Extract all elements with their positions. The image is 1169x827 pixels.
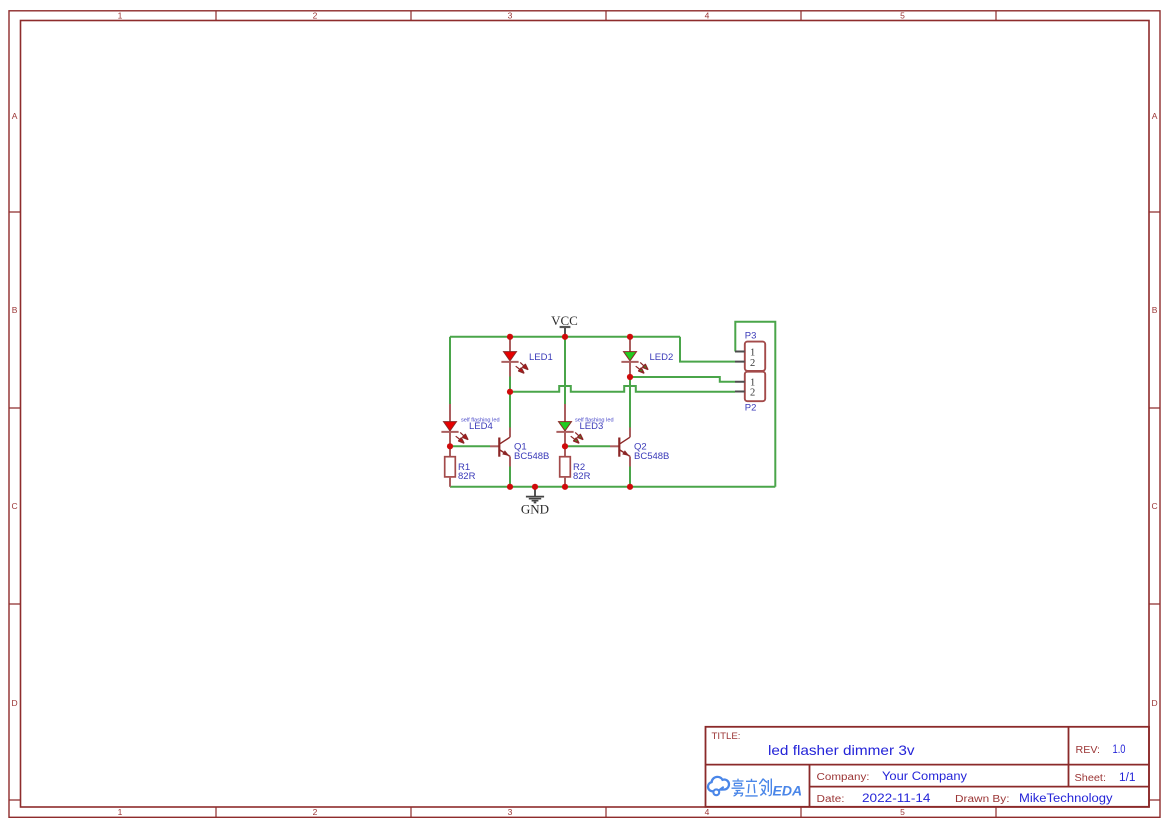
- transistor Q1: [490, 428, 549, 467]
- ground GND: [521, 487, 549, 517]
- svg-text:EDA: EDA: [773, 783, 803, 799]
- resistor R2: [560, 457, 591, 487]
- wire Q2 emitter to rail: [629, 467, 631, 487]
- svg-text:B: B: [1152, 305, 1158, 315]
- svg-text:VCC: VCC: [551, 313, 578, 328]
- wire top rail VCC: [450, 336, 680, 338]
- svg-text:LED4: LED4: [469, 421, 493, 432]
- wire node LED3 to Q2 base: [565, 445, 610, 447]
- LED LED2: [621, 337, 673, 377]
- svg-text:led flasher dimmer 3v: led flasher dimmer 3v: [768, 742, 915, 758]
- junction node R2 rail: [562, 484, 568, 490]
- svg-text:2: 2: [313, 11, 318, 21]
- wire left rail down to LED4: [449, 337, 451, 404]
- svg-text:82R: 82R: [573, 471, 591, 482]
- svg-text:C: C: [12, 501, 18, 511]
- pin LED3 anode: [564, 404, 566, 422]
- svg-text:B: B: [12, 305, 18, 315]
- svg-text:MikeTechnology: MikeTechnology: [1019, 793, 1113, 805]
- svg-text:3: 3: [508, 807, 513, 817]
- svg-text:82R: 82R: [458, 471, 476, 482]
- wire R1 top to LED4 node: [449, 421, 451, 457]
- LED LED1: [501, 337, 552, 377]
- wire Q1 emitter to rail: [509, 467, 511, 487]
- svg-text:Your Company: Your Company: [882, 771, 967, 783]
- junction node Q2 emitter rail: [627, 484, 633, 490]
- svg-text:TITLE:: TITLE:: [712, 731, 741, 742]
- svg-text:1: 1: [118, 11, 123, 21]
- svg-text:LED3: LED3: [580, 421, 604, 432]
- junction node LED2 cathode: [627, 374, 633, 380]
- svg-text:D: D: [1152, 698, 1158, 708]
- logo hanzi jia: [732, 779, 745, 796]
- svg-text:D: D: [12, 698, 18, 708]
- junction node LED1 anode: [507, 334, 513, 340]
- wire R2 top to LED3 node: [564, 421, 566, 457]
- logo hanzi li: [745, 779, 757, 796]
- svg-text:Company:: Company:: [817, 772, 870, 783]
- pin LED4 anode: [449, 404, 451, 422]
- JLC EDA logo: [708, 777, 802, 799]
- LED LED3 self flashing: [556, 418, 613, 443]
- svg-text:5: 5: [900, 807, 905, 817]
- junction node LED2 anode: [627, 334, 633, 340]
- wire node LED1 to P2 pin 2 with hops: [510, 386, 735, 392]
- junction node Q1 base: [447, 443, 453, 449]
- logo cloud icon: [708, 777, 729, 791]
- resistor R1: [445, 457, 476, 487]
- junction node VCC: [562, 334, 568, 340]
- svg-text:4: 4: [705, 11, 710, 21]
- junction node LED1 cathode: [507, 389, 513, 395]
- svg-text:GND: GND: [521, 502, 549, 517]
- svg-text:2: 2: [750, 388, 755, 399]
- junction node GND rail: [532, 484, 538, 490]
- wire VCC column down to LED3: [564, 337, 566, 404]
- power flag VCC: [551, 313, 578, 337]
- wire node LED2 to P2 pin 1: [630, 377, 735, 382]
- svg-text:2: 2: [750, 358, 755, 369]
- svg-text:Date:: Date:: [817, 794, 845, 805]
- wire LED2 cathode node down to Q2 collector: [629, 377, 631, 428]
- svg-text:LED2: LED2: [650, 352, 674, 363]
- CIRCUIT: [441, 313, 775, 517]
- svg-text:C: C: [1152, 501, 1158, 511]
- svg-text:A: A: [1152, 111, 1158, 121]
- connector P2: [735, 372, 765, 414]
- svg-text:1: 1: [118, 807, 123, 817]
- svg-text:Drawn By:: Drawn By:: [955, 794, 1010, 805]
- wire LED1 cathode to node and Q1 collector: [509, 377, 511, 428]
- LED LED4 self flashing: [441, 418, 499, 443]
- svg-text:1/1: 1/1: [1119, 772, 1136, 784]
- wire node LED4 to Q1 base: [450, 445, 490, 447]
- svg-text:4: 4: [705, 807, 710, 817]
- svg-text:Sheet:: Sheet:: [1075, 773, 1107, 784]
- svg-text:1.0: 1.0: [1113, 744, 1126, 756]
- svg-text:REV:: REV:: [1076, 745, 1101, 756]
- svg-text:A: A: [12, 111, 18, 121]
- transistor Q2: [610, 428, 669, 467]
- logo hanzi chuang: [759, 779, 771, 796]
- junction node Q2 base: [562, 443, 568, 449]
- junction node Q1 emitter rail: [507, 484, 513, 490]
- connector P3: [735, 331, 765, 371]
- svg-text:BC548B: BC548B: [634, 451, 669, 462]
- svg-text:2022-11-14: 2022-11-14: [862, 793, 931, 805]
- svg-text:LED1: LED1: [529, 352, 553, 363]
- TITLE BLOCK: [706, 727, 1150, 807]
- wire bottom rail GND: [450, 486, 775, 488]
- svg-text:3: 3: [508, 11, 513, 21]
- svg-text:P3: P3: [745, 331, 757, 342]
- svg-text:5: 5: [900, 11, 905, 21]
- svg-text:BC548B: BC548B: [514, 451, 549, 462]
- wire P3 pin 1 loop to bottom rail: [735, 322, 775, 487]
- wire top rail to P3 pin 2: [680, 337, 735, 362]
- svg-text:2: 2: [313, 807, 318, 817]
- svg-text:P2: P2: [745, 403, 757, 414]
